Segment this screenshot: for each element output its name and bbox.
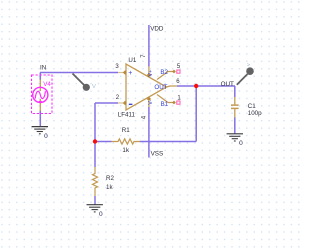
svg-text:V+: V+	[148, 70, 154, 77]
svg-text:R1: R1	[122, 127, 130, 134]
resistor R2	[93, 167, 98, 196]
op-amp U1 triangle	[126, 64, 167, 110]
V4 minus mark	[39, 100, 42, 102]
wire R1 right to feedback corner	[140, 141, 197, 143]
junction dot out	[194, 84, 198, 88]
V4 sine wave	[35, 91, 45, 98]
B2 unconnected square pin 5	[177, 70, 180, 73]
svg-text:1k: 1k	[106, 184, 113, 191]
ground under V4	[32, 127, 49, 140]
wire junction to R1 left	[95, 141, 112, 143]
svg-text:VSS: VSS	[151, 151, 164, 158]
wire pin2 horizontal	[95, 102, 118, 104]
svg-text:VDD: VDD	[150, 26, 164, 33]
pin 4 stub	[148, 100, 150, 108]
wire output horizontal to OUT corner	[177, 85, 235, 87]
junction dot left	[93, 139, 97, 143]
svg-text:>: >	[247, 62, 251, 68]
minus sign	[129, 103, 133, 105]
output pin	[167, 86, 178, 87]
resistor R1	[112, 139, 141, 144]
svg-text:OUT: OUT	[221, 81, 234, 88]
svg-text:LF411: LF411	[118, 112, 136, 119]
svg-text:R2: R2	[106, 175, 114, 182]
voltage source V4 dashed box	[32, 75, 53, 114]
probe V at OUT	[237, 74, 248, 85]
wire IN horizontal to pin 3	[40, 72, 118, 74]
svg-text:U1: U1	[128, 57, 136, 64]
wire OUT corner down to C1	[234, 86, 236, 97]
B1 pin stub	[157, 95, 173, 103]
wire left vertical pin2 to junction	[94, 103, 96, 142]
pin 3 stub	[118, 72, 123, 74]
wire R2 bottom to ground	[94, 196, 96, 205]
svg-text:V-: V-	[148, 100, 154, 105]
pin 7 stub	[148, 67, 150, 75]
svg-text:V4: V4	[43, 81, 51, 88]
wire VDD down to pin7	[148, 25, 150, 67]
B1 unconnected square pin 1	[177, 101, 180, 104]
svg-text:B1: B1	[161, 101, 169, 108]
svg-text:V: V	[92, 84, 96, 90]
wire feedback vertical	[195, 86, 197, 142]
wire junction down to R2	[94, 142, 96, 168]
svg-text:100p: 100p	[248, 110, 262, 117]
wire C1 bottom to ground	[234, 118, 236, 134]
svg-text:IN: IN	[40, 64, 47, 71]
capacitor C1	[234, 97, 236, 104]
svg-text:B2: B2	[160, 69, 168, 76]
B2 pin stub	[157, 72, 173, 80]
wire IN down into V4	[39, 73, 41, 81]
svg-text:OUT: OUT	[154, 84, 167, 91]
V4 bottom pin	[39, 99, 41, 111]
wire pin4 down to VSS end	[148, 107, 150, 158]
probe V at IN	[73, 74, 85, 86]
V4 circle	[33, 87, 48, 102]
svg-text:+: +	[128, 70, 132, 77]
svg-text:1k: 1k	[122, 147, 129, 154]
pin 2 stub	[118, 102, 123, 104]
ground under R2	[87, 205, 104, 218]
V4 top pin	[39, 80, 41, 92]
wire V4 bottom to ground	[39, 111, 41, 127]
ground under C1	[227, 134, 244, 147]
